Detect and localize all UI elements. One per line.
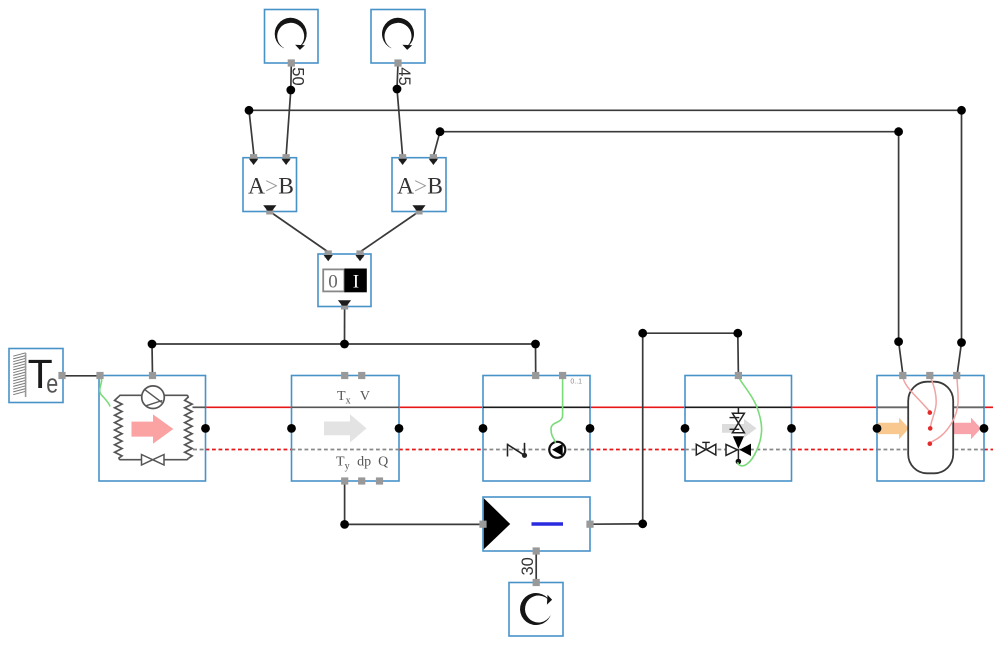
pipe gray arrow bbox=[324, 414, 367, 442]
tank return dashed stubs bbox=[877, 449, 914, 451]
pipe supply line bbox=[292, 406, 400, 408]
pump supply line bbox=[483, 406, 590, 408]
port dial SP3 in bbox=[533, 579, 540, 586]
wire dial SP2 to comparator U2 input A bbox=[397, 63, 403, 156]
port U1 out bbox=[266, 207, 273, 214]
node pipe left bbox=[287, 424, 296, 433]
dial SP3 (setpoint 30) bbox=[509, 583, 563, 637]
node bend tank->U2 lower bbox=[894, 337, 903, 346]
node bus right bbox=[531, 340, 540, 349]
heat pump refrigerant circuit bbox=[115, 395, 193, 459]
node bend above U1 bbox=[245, 106, 254, 115]
port valve top bbox=[735, 372, 742, 379]
port HP corner bbox=[96, 372, 103, 379]
node bend tank->U1 lower bbox=[957, 338, 966, 347]
wire comparator U2 out to switch input bbox=[360, 212, 419, 253]
port U2 out bbox=[415, 207, 422, 214]
valve block bbox=[685, 376, 792, 482]
wire return red dashed HP-pipe bbox=[206, 449, 292, 451]
valve branch line bbox=[737, 407, 739, 413]
wire supply red segment pump-valve bbox=[590, 406, 685, 408]
heat pump expansion valve bbox=[142, 455, 153, 466]
port U1 in A bbox=[250, 154, 257, 161]
arrow out of U1 bbox=[263, 205, 276, 210]
wire tank left sensor to comparator U2 input B bbox=[433, 132, 903, 376]
svg-text:Tx V: Tx V bbox=[337, 389, 370, 407]
pump check valve bbox=[508, 443, 525, 457]
arrow into switch 2 bbox=[355, 255, 364, 261]
port pipe top 1 bbox=[341, 372, 348, 379]
node pipe right bbox=[395, 424, 404, 433]
node bend dial SP2 wire bbox=[393, 85, 402, 94]
tank sensor dot 2 bbox=[928, 426, 933, 431]
port switch in 1 bbox=[325, 250, 332, 257]
valve gray arrow bbox=[722, 419, 757, 438]
wire supply red segment pipe-pump bbox=[399, 406, 483, 408]
svg-text:50: 50 bbox=[288, 67, 306, 85]
port pipe bottom 1 bbox=[341, 477, 348, 484]
port pump top 1 bbox=[532, 372, 539, 379]
node tank left bbox=[873, 424, 882, 433]
port tank top 1 bbox=[899, 372, 906, 379]
port controller left bbox=[479, 521, 486, 528]
wire control bus horizontal bbox=[152, 343, 536, 345]
wire supply red segment HP-pipe bbox=[206, 406, 292, 408]
svg-text:0..1: 0..1 bbox=[570, 379, 582, 386]
pipe return dashed line bbox=[292, 449, 400, 451]
controller blue line bbox=[532, 522, 564, 526]
port pipe top 2 bbox=[358, 372, 365, 379]
svg-text:Ty dpQ: Ty dpQ bbox=[336, 454, 388, 472]
controller input triangle bbox=[484, 498, 510, 549]
node tank right bbox=[980, 424, 989, 433]
arrow out of U2 bbox=[412, 205, 425, 210]
pipe block bbox=[292, 376, 400, 482]
arrow into U1 A bbox=[249, 159, 258, 165]
wire return red dashed tank-right edge bbox=[984, 449, 993, 451]
tank inlet orange arrow bbox=[878, 418, 909, 440]
heat pump internal pipe stubs bbox=[193, 406, 206, 408]
arrow out of switch bbox=[338, 300, 351, 305]
valve balancing valve bbox=[696, 444, 716, 455]
port U2 in B bbox=[430, 154, 437, 161]
tank sensor wire 3 bbox=[930, 376, 958, 444]
arrow into U2 A bbox=[398, 159, 407, 165]
tank vessel bbox=[908, 382, 953, 474]
port dial SP1 out bbox=[288, 59, 295, 66]
valve green control wire bbox=[738, 376, 762, 466]
node bus center bbox=[340, 340, 349, 349]
svg-text:A>B: A>B bbox=[248, 173, 294, 199]
heat pump compressor bbox=[142, 386, 165, 409]
node bend tank->U1 top right bbox=[957, 106, 966, 115]
comparator U1 A>B bbox=[243, 158, 297, 212]
wire pipe block bottom to controller left bbox=[345, 481, 483, 524]
node HP right bbox=[201, 424, 210, 433]
port tank top 2 bbox=[926, 372, 933, 379]
node bend controller->valve high bbox=[638, 329, 647, 338]
dial SP2 (setpoint 45) bbox=[371, 10, 425, 64]
pump return dashed line bbox=[483, 449, 590, 451]
port controller right bbox=[586, 521, 593, 528]
wire bus to pump top port bbox=[535, 344, 537, 376]
port controller bottom bbox=[533, 547, 540, 554]
pump circulator bbox=[549, 442, 565, 458]
pump green control wire bbox=[551, 376, 563, 443]
node valve right bbox=[787, 424, 796, 433]
wire return red dashed pump-valve bbox=[590, 449, 685, 451]
wire switch out down to bus bbox=[344, 307, 346, 345]
wire controller right to valve top bbox=[590, 333, 738, 524]
node bend dial SP1 wire bbox=[286, 86, 295, 95]
wire Te to heat pump bbox=[62, 375, 100, 377]
svg-text:0: 0 bbox=[328, 272, 338, 293]
arrow into switch 1 bbox=[324, 255, 333, 261]
tank sensor wire 1 bbox=[903, 376, 930, 413]
valve return dashed line bbox=[685, 449, 792, 451]
node valve left bbox=[681, 424, 690, 433]
wire controller bottom to dial SP3 bbox=[535, 551, 537, 583]
svg-text:A>B: A>B bbox=[397, 173, 443, 199]
heat pump block bbox=[99, 376, 206, 482]
arrow into U1 B bbox=[282, 159, 291, 165]
tank sensor wire 2 bbox=[930, 376, 936, 429]
Te outside temperature block bbox=[9, 349, 63, 403]
wire comparator U1 out to switch input bbox=[270, 212, 328, 253]
valve two-way valve bbox=[732, 413, 744, 423]
node bend above U2 bbox=[436, 127, 445, 136]
port U1 in B bbox=[283, 154, 290, 161]
node bend tank->U2 top bbox=[894, 127, 903, 136]
wire dial SP1 to comparator U1 input B bbox=[286, 63, 291, 156]
port pump top 2 bbox=[559, 372, 566, 379]
dial SP1 (setpoint 50) bbox=[265, 10, 319, 64]
svg-text:e: e bbox=[46, 369, 58, 399]
svg-text:I: I bbox=[353, 272, 359, 293]
heat pump pink arrow bbox=[132, 414, 174, 443]
wire supply red segment tank-right edge bbox=[984, 406, 993, 408]
port HP top bbox=[149, 372, 156, 379]
port dial SP2 out bbox=[394, 59, 401, 66]
wire tank right sensor to comparator U1 input A bbox=[249, 110, 962, 375]
valve three-way mixing valve bbox=[733, 436, 744, 449]
node bend above valve bbox=[733, 329, 742, 338]
pump block bbox=[483, 376, 590, 482]
port Te out bbox=[58, 372, 65, 379]
wire return red dashed valve-tank bbox=[792, 449, 878, 451]
node pump left bbox=[479, 424, 488, 433]
heat pump green control wire bbox=[100, 378, 110, 407]
tank outlet pink arrow bbox=[952, 418, 981, 440]
svg-text:45: 45 bbox=[395, 67, 413, 85]
tank supply stubs bbox=[877, 406, 914, 408]
port tank top 3 bbox=[953, 372, 960, 379]
valve supply line bbox=[685, 406, 792, 408]
node bus left bbox=[148, 340, 157, 349]
port pipe bottom 2 bbox=[358, 477, 365, 484]
storage tank block bbox=[877, 376, 984, 482]
wire bus to heat pump top port bbox=[151, 344, 154, 376]
tank sensor dot 1 bbox=[928, 410, 933, 415]
port pipe bottom 3 bbox=[376, 477, 383, 484]
switch 0/I U3 bbox=[318, 254, 371, 307]
wire return red dashed pipe-pump bbox=[399, 449, 483, 451]
controller block (aux heater control) bbox=[483, 497, 590, 551]
arrow into U2 B bbox=[429, 159, 438, 165]
svg-text:30: 30 bbox=[519, 557, 537, 575]
port U2 in A bbox=[399, 154, 406, 161]
node bend pipe->controller bbox=[340, 520, 349, 529]
port switch in 2 bbox=[356, 250, 363, 257]
node bend controller->valve low bbox=[638, 519, 647, 528]
comparator U2 A>B bbox=[392, 158, 446, 212]
port switch out bbox=[341, 302, 348, 309]
tank sensor dot 3 bbox=[928, 441, 933, 446]
node pump right bbox=[586, 424, 595, 433]
wire supply red segment valve-tank bbox=[792, 406, 878, 408]
